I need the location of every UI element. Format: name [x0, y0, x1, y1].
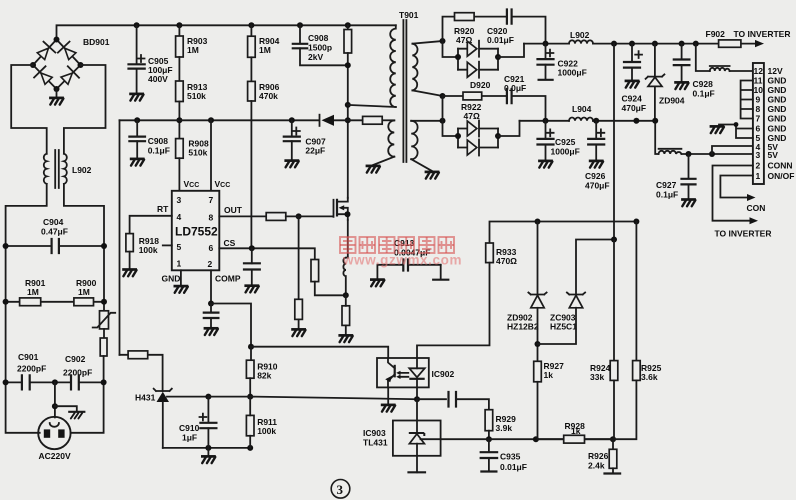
svg-text:GND: GND	[768, 95, 787, 105]
svg-text:H431: H431	[135, 393, 156, 403]
svg-text:C926: C926	[585, 171, 606, 181]
svg-text:2200pF: 2200pF	[17, 364, 46, 374]
svg-text:3.9k: 3.9k	[496, 423, 513, 433]
svg-text:HZ5C1: HZ5C1	[550, 322, 577, 332]
svg-text:510k: 510k	[188, 148, 207, 158]
svg-text:TO INVERTER: TO INVERTER	[715, 229, 772, 239]
svg-text:L902: L902	[570, 30, 590, 40]
svg-text:7: 7	[756, 114, 761, 124]
svg-text:2: 2	[756, 161, 761, 171]
svg-text:C908: C908	[308, 33, 329, 43]
svg-text:CONN: CONN	[768, 161, 793, 171]
svg-text:3: 3	[177, 195, 182, 205]
svg-text:6: 6	[756, 124, 761, 134]
svg-text:1μF: 1μF	[182, 433, 197, 443]
svg-text:470Ω: 470Ω	[496, 256, 517, 266]
svg-text:0.1μF: 0.1μF	[148, 146, 170, 156]
svg-text:2: 2	[208, 259, 213, 269]
svg-text:400V: 400V	[148, 74, 168, 84]
svg-text:0.47μF: 0.47μF	[41, 227, 68, 237]
svg-text:100k: 100k	[257, 426, 276, 436]
svg-text:C910: C910	[179, 423, 200, 433]
svg-text:1000μF: 1000μF	[558, 68, 587, 78]
svg-text:1: 1	[177, 259, 182, 269]
svg-text:33k: 33k	[590, 372, 604, 382]
svg-text:1: 1	[756, 171, 761, 181]
svg-text:510k: 510k	[187, 91, 206, 101]
svg-text:C927: C927	[656, 180, 677, 190]
svg-text:5V: 5V	[768, 150, 779, 160]
svg-text:C928: C928	[693, 79, 714, 89]
svg-text:C902: C902	[65, 354, 86, 364]
svg-text:IC903: IC903	[363, 428, 386, 438]
svg-text:F902: F902	[706, 29, 726, 39]
svg-text:9: 9	[756, 95, 761, 105]
svg-text:47Ω: 47Ω	[464, 111, 480, 121]
svg-text:ZD904: ZD904	[659, 96, 685, 106]
svg-text:5: 5	[177, 242, 182, 252]
svg-text:TL431: TL431	[363, 438, 388, 448]
svg-text:RT: RT	[157, 204, 169, 214]
svg-text:ON/OF: ON/OF	[768, 171, 795, 181]
svg-text:C908: C908	[148, 136, 169, 146]
svg-text:1M: 1M	[78, 287, 90, 297]
svg-text:12: 12	[754, 66, 764, 76]
svg-text:22μF: 22μF	[305, 146, 325, 156]
svg-text:C904: C904	[43, 217, 64, 227]
svg-text:GND: GND	[768, 104, 787, 114]
svg-text:TO INVERTER: TO INVERTER	[734, 29, 791, 39]
svg-text:12V: 12V	[768, 66, 783, 76]
svg-text:82k: 82k	[257, 371, 271, 381]
svg-text:0.01μF: 0.01μF	[500, 462, 527, 472]
svg-text:470μF: 470μF	[585, 181, 610, 191]
svg-text:1000μF: 1000μF	[551, 147, 580, 157]
svg-text:6: 6	[209, 243, 214, 253]
svg-text:0.01μF: 0.01μF	[487, 35, 514, 45]
svg-text:www.gzwmx.com: www.gzwmx.com	[342, 253, 462, 268]
svg-text:2.4k: 2.4k	[588, 461, 605, 471]
svg-text:T901: T901	[399, 10, 419, 20]
svg-text:1k: 1k	[544, 370, 554, 380]
svg-text:1M: 1M	[27, 287, 39, 297]
svg-text:AC220V: AC220V	[39, 451, 71, 461]
svg-text:1500p: 1500p	[308, 43, 332, 53]
svg-text:GND: GND	[768, 114, 787, 124]
svg-text:8: 8	[756, 104, 761, 114]
svg-text:0.1μF: 0.1μF	[656, 190, 678, 200]
svg-text:IC902: IC902	[432, 369, 455, 379]
svg-text:C901: C901	[18, 352, 39, 362]
svg-text:100k: 100k	[139, 245, 158, 255]
svg-text:8: 8	[209, 213, 214, 223]
svg-text:GND: GND	[768, 85, 787, 95]
svg-text:C935: C935	[500, 452, 521, 462]
svg-text:COMP: COMP	[215, 274, 241, 284]
svg-text:D920: D920	[470, 80, 491, 90]
svg-text:4: 4	[177, 212, 182, 222]
svg-text:0.1μF: 0.1μF	[693, 89, 715, 99]
svg-text:11: 11	[754, 76, 763, 86]
svg-text:BD901: BD901	[83, 37, 110, 47]
svg-text:CS: CS	[224, 238, 236, 248]
svg-text:LD7552: LD7552	[175, 225, 218, 239]
svg-text:C925: C925	[555, 137, 576, 147]
svg-text:3: 3	[756, 150, 761, 160]
svg-text:HZ12B2: HZ12B2	[507, 322, 539, 332]
svg-text:GND: GND	[162, 274, 181, 284]
svg-text:L902: L902	[72, 165, 92, 175]
svg-text:2200pF: 2200pF	[63, 368, 92, 378]
svg-text:CON: CON	[747, 203, 766, 213]
svg-text:GND: GND	[768, 76, 787, 86]
svg-text:470μF: 470μF	[622, 103, 647, 113]
svg-text:1M: 1M	[259, 45, 271, 55]
svg-text:OUT: OUT	[224, 205, 243, 215]
svg-text:470k: 470k	[259, 91, 278, 101]
svg-text:L904: L904	[572, 104, 592, 114]
svg-text:3.6k: 3.6k	[641, 372, 658, 382]
svg-text:1M: 1M	[187, 45, 199, 55]
svg-text:10: 10	[754, 85, 764, 95]
svg-text:7: 7	[209, 195, 214, 205]
svg-text:2kV: 2kV	[308, 52, 323, 62]
svg-text:R926: R926	[588, 451, 609, 461]
svg-text:GND: GND	[768, 124, 787, 134]
svg-text:3: 3	[337, 482, 344, 497]
svg-text:C924: C924	[622, 94, 643, 104]
